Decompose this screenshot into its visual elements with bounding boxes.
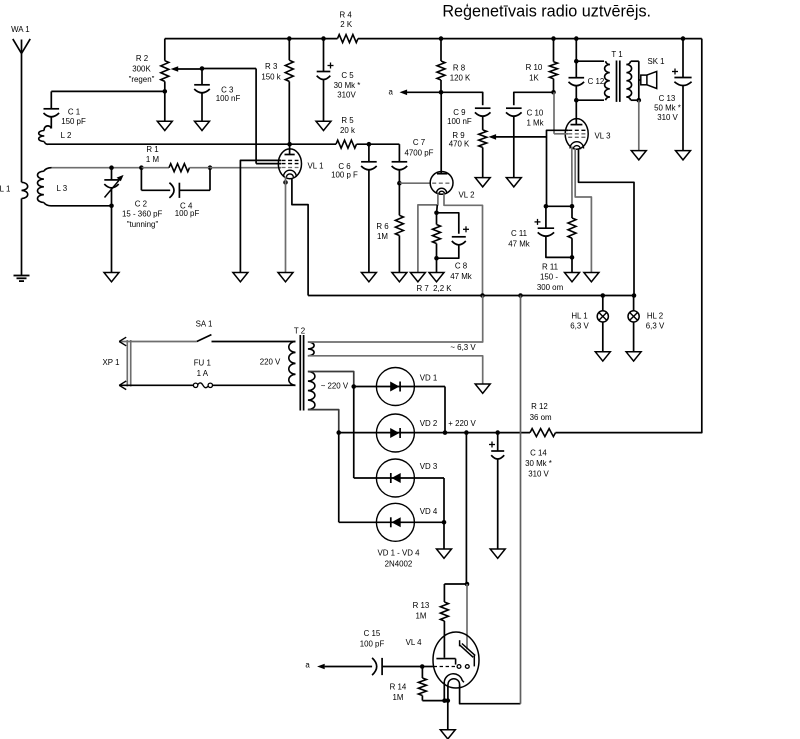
node R11 rail: [544, 204, 549, 209]
svg-text:T 2: T 2: [294, 326, 305, 335]
wire grid to VL2: [399, 182, 430, 184]
node R11 bottom: [570, 255, 575, 260]
switch SA1: [196, 320, 213, 342]
wire VL2 cathode left to ground: [418, 194, 438, 273]
node tuning nodes: [109, 165, 114, 170]
wire VL4 heater loop: [460, 685, 521, 704]
svg-text:VL 4: VL 4: [406, 638, 423, 647]
svg-text:36 om: 36 om: [530, 413, 552, 422]
wire C12 branch from bus: [575, 39, 577, 62]
ground VL3 heater: [584, 273, 599, 282]
svg-text:Reģenetīvais radio uztvērējs.: Reģenetīvais radio uztvērējs.: [442, 2, 651, 20]
wire heater riser: [520, 296, 522, 704]
node common bus junctions: [480, 293, 485, 298]
node VD4 right: [442, 520, 447, 525]
node VL2 grid junction: [397, 181, 402, 186]
resistor R11: [537, 206, 576, 292]
svg-text:310 V: 310 V: [657, 113, 678, 122]
tube VL3: [565, 100, 611, 149]
node R10 bottom: [551, 90, 556, 95]
svg-text:100 nF: 100 nF: [447, 117, 472, 126]
earth ground under antenna: [14, 276, 30, 282]
wire antenna down: [21, 54, 23, 183]
wire VL2 cathode right to common bus: [444, 194, 483, 296]
capacitor C15 and node a: [305, 629, 422, 675]
svg-text:VD 4: VD 4: [420, 507, 438, 516]
capacitor C12: [569, 61, 605, 100]
svg-text:WA 1: WA 1: [11, 25, 30, 34]
ground under HL1: [595, 352, 610, 361]
svg-text:R 12: R 12: [531, 402, 548, 411]
svg-text:+ 220 V: + 220 V: [448, 419, 476, 428]
node R7 top: [434, 211, 439, 216]
wire C1 to L2: [50, 117, 52, 129]
capacitor C5: [317, 39, 361, 122]
svg-text:R 10: R 10: [526, 63, 543, 72]
wire plate rail: [48, 143, 336, 145]
wire VL3 heater to R11: [571, 147, 573, 207]
capacitor C10: [506, 108, 544, 177]
capacitor C6: [331, 144, 377, 272]
wire VL4 target anode riser: [466, 584, 468, 650]
ground under C3: [195, 121, 210, 130]
diode VD1: [354, 368, 445, 406]
ground under C2: [104, 273, 119, 282]
svg-text:100 p F: 100 p F: [331, 170, 358, 179]
capacitor C11: [508, 206, 572, 257]
resistor R6: [376, 183, 403, 272]
svg-text:1 M: 1 M: [146, 155, 159, 164]
svg-text:150 pF: 150 pF: [61, 117, 86, 126]
wire C2 to ground: [111, 206, 113, 273]
ground VL2 cathode: [410, 273, 425, 282]
resistor R4: [338, 10, 359, 42]
svg-text:100 pF: 100 pF: [360, 639, 385, 648]
svg-text:R 6: R 6: [376, 222, 389, 231]
lamp HL1: [570, 296, 608, 352]
wire 6.3V bottom to ground: [308, 356, 483, 384]
wire FU1 to T2: [213, 384, 296, 386]
svg-text:C 12: C 12: [588, 77, 605, 86]
potentiometer R2: [129, 54, 202, 84]
node R7 bottom: [434, 256, 439, 261]
svg-text:100 pF: 100 pF: [175, 209, 200, 218]
svg-text:L 1: L 1: [0, 185, 10, 194]
wire XP1 bottom to FU1: [119, 384, 193, 386]
svg-text:1 A: 1 A: [197, 369, 209, 378]
ground under C10: [506, 178, 521, 187]
svg-text:C 14: C 14: [530, 449, 547, 458]
wire 220V secondary top to VD1: [308, 372, 354, 387]
svg-text:R 7 2,2 K: R 7 2,2 K: [416, 284, 452, 293]
wire XP1 to SA1: [131, 341, 197, 343]
svg-text:120 K: 120 K: [450, 73, 471, 82]
tube VL2: [430, 172, 474, 200]
svg-text:300K: 300K: [132, 64, 151, 73]
svg-text:1M: 1M: [416, 612, 427, 621]
tube VL4: [406, 632, 479, 688]
wire top supply bus: [165, 38, 338, 40]
svg-text:R 13: R 13: [413, 601, 430, 610]
wire 220V secondary bottom: [308, 410, 339, 433]
wire VD1-VD3 link: [353, 387, 355, 479]
svg-text:a: a: [389, 88, 394, 97]
svg-text:15 - 360 pF: 15 - 360 pF: [122, 210, 163, 219]
ground under R11: [565, 273, 580, 282]
inductor L3: [37, 168, 67, 206]
node C3 top: [200, 66, 205, 71]
wire VL2 plate riser: [440, 92, 442, 173]
wire VL3 screen row: [554, 133, 568, 135]
svg-text:XP 1: XP 1: [103, 358, 120, 367]
wire R11 rail: [546, 205, 572, 207]
resistor R8: [437, 39, 471, 93]
resistor R13: [413, 584, 449, 658]
capacitor C7: [392, 138, 434, 183]
winding T2 secondary 220V: [308, 372, 315, 410]
wire R10 node to C10: [514, 92, 554, 105]
wire SA1 to T2: [212, 341, 296, 343]
winding T2 secondary 6.3V: [308, 342, 314, 356]
wire L1 to ground: [21, 199, 23, 276]
resistor R12: [530, 402, 556, 437]
svg-text:6,3 V: 6,3 V: [570, 322, 589, 331]
diode VD3: [354, 459, 444, 497]
node +220V junctions: [336, 430, 341, 435]
ground under R6: [392, 273, 407, 282]
svg-text:100 nF: 100 nF: [216, 94, 241, 103]
svg-text:T 1: T 1: [611, 50, 622, 59]
wire common bus: [308, 295, 634, 297]
ground under C6: [361, 273, 376, 282]
ground under C14: [490, 549, 505, 558]
wire speaker to ground: [638, 100, 640, 150]
node VL4 cathode: [442, 698, 447, 703]
diode VD4: [339, 433, 444, 542]
node a (output tap): [389, 88, 441, 97]
variable capacitor C2: [104, 168, 162, 230]
wire B+ right border: [556, 39, 702, 433]
svg-text:150 k: 150 k: [261, 72, 280, 81]
ground VD rectifier: [437, 549, 452, 558]
capacitor C13: [654, 39, 691, 151]
svg-text:HL 2: HL 2: [647, 312, 663, 321]
wire VL1 g3 to ground: [240, 160, 281, 272]
svg-text:50 Mk *: 50 Mk *: [654, 104, 681, 113]
svg-text:SK 1: SK 1: [647, 57, 664, 66]
svg-text:"regen": "regen": [129, 75, 155, 84]
svg-text:300 om: 300 om: [537, 283, 564, 292]
wire +220V rail: [339, 432, 530, 434]
svg-text:R 11: R 11: [542, 262, 558, 271]
svg-text:2N4002: 2N4002: [385, 559, 413, 568]
tube VL1: [278, 144, 323, 179]
svg-text:C 7: C 7: [413, 138, 425, 147]
svg-text:a: a: [305, 661, 310, 670]
wire VD3 VD4 to ground: [443, 478, 445, 549]
wire VL1 cathode to ground: [285, 177, 287, 273]
svg-text:VD 3: VD 3: [420, 462, 438, 471]
wire VL3 heater to ground: [575, 149, 591, 273]
resistor R14: [390, 667, 448, 702]
transformer T2: [289, 326, 305, 410]
wire VL1 cathode to common bus: [292, 179, 308, 296]
wire VL1 screen row: [256, 163, 281, 165]
plug XP1: [103, 337, 131, 386]
svg-text:C 1: C 1: [68, 107, 80, 116]
svg-text:1 Mk: 1 Mk: [526, 118, 543, 127]
ground under R9: [475, 178, 490, 187]
ground under VL4: [440, 730, 455, 739]
potentiometer R9: [449, 116, 547, 178]
wire 6.3V top to bus: [308, 296, 483, 343]
ground VL1 cathode: [278, 273, 293, 282]
capacitor C9: [447, 108, 490, 126]
wire L3 top rail: [52, 167, 142, 169]
svg-text:6,3 V: 6,3 V: [646, 322, 665, 331]
svg-text:R 8: R 8: [453, 63, 466, 72]
svg-text:HL 1: HL 1: [571, 312, 587, 321]
node plate rail junctions: [287, 142, 292, 147]
node R2 bottom junction: [163, 89, 168, 94]
wire R10 to VL3 screen: [553, 92, 555, 134]
ground 6.3V: [475, 384, 490, 393]
svg-text:C 11: C 11: [511, 229, 527, 238]
node VL4 grid: [420, 664, 425, 669]
resistor R7: [416, 213, 452, 293]
wire VD1 to +220 rail: [444, 387, 446, 433]
resistor R3: [261, 39, 293, 145]
svg-text:2 K: 2 K: [340, 20, 353, 29]
svg-text:1M: 1M: [377, 232, 388, 241]
svg-text:"tunning": "tunning": [127, 220, 159, 229]
node T1 bottom: [574, 98, 579, 103]
svg-text:VL 1: VL 1: [308, 161, 324, 170]
wire grid to VL4: [422, 666, 433, 668]
resistor R5: [336, 116, 357, 148]
svg-text:VD 1: VD 1: [420, 374, 438, 383]
speaker SK1: [641, 57, 665, 89]
resistor R10: [526, 39, 558, 93]
svg-text:C 5: C 5: [341, 71, 354, 80]
transformer T1: [576, 50, 639, 102]
svg-text:470 K: 470 K: [449, 139, 470, 148]
svg-text:30 Mk *: 30 Mk *: [525, 459, 552, 468]
svg-text:30 Mk *: 30 Mk *: [334, 81, 361, 90]
svg-text:C 10: C 10: [527, 108, 544, 117]
wire R13 riser: [465, 433, 467, 584]
svg-text:4700 pF: 4700 pF: [405, 148, 434, 157]
svg-text:FU 1: FU 1: [194, 358, 211, 367]
svg-text:C 8: C 8: [455, 262, 468, 271]
node speaker junction: [637, 98, 642, 103]
svg-text:~ 6,3 V: ~ 6,3 V: [450, 343, 476, 352]
wire VL4 cathode legs: [443, 683, 445, 701]
node VL1 cathode: [283, 180, 288, 185]
ground VL1 g3: [233, 273, 248, 282]
wire bus to R2: [164, 39, 166, 61]
node top bus junctions: [287, 36, 292, 41]
svg-text:310 V: 310 V: [528, 469, 549, 478]
wire R2 junction to C1: [51, 90, 165, 92]
lamp HL2: [628, 296, 665, 352]
node R13 top: [465, 582, 470, 587]
wire L3 bottom rail: [52, 205, 112, 207]
node VD1 left: [351, 384, 356, 389]
svg-text:1K: 1K: [529, 73, 539, 82]
wire VL2 cathode to R7: [436, 205, 439, 213]
svg-text:VL 3: VL 3: [595, 132, 612, 141]
svg-text:47 Mk: 47 Mk: [450, 272, 472, 281]
wire grid rail to VL1: [210, 167, 281, 169]
wire VL3 cathode to bus: [579, 150, 635, 296]
wire R8 node to C9: [441, 92, 483, 105]
node R8 bottom: [439, 90, 444, 95]
svg-text:R 14: R 14: [390, 682, 407, 691]
capacitor C3: [194, 69, 240, 122]
ground under R2: [157, 121, 172, 130]
ground under R7: [429, 273, 444, 282]
svg-text:L 3: L 3: [56, 184, 67, 193]
svg-text:C 15: C 15: [364, 629, 381, 638]
svg-text:C 2: C 2: [135, 199, 147, 208]
inductor L1: [0, 182, 28, 198]
svg-text:220 V: 220 V: [260, 357, 281, 366]
svg-text:310V: 310V: [337, 91, 356, 100]
capacitor C4: [141, 168, 210, 219]
svg-text:R 4: R 4: [339, 10, 352, 19]
svg-text:VL 2: VL 2: [459, 191, 475, 200]
wire T1 secondary to speaker: [638, 61, 640, 100]
svg-text:VD 2: VD 2: [420, 419, 438, 428]
svg-text:20 k: 20 k: [340, 126, 355, 135]
capacitor C1: [44, 107, 86, 125]
svg-text:47 Mk: 47 Mk: [508, 239, 530, 248]
svg-text:150 -: 150 -: [540, 272, 558, 281]
wire to C1: [50, 91, 52, 108]
wire R2 wiper to C3 to VL1 screen: [202, 68, 256, 70]
svg-text:SA 1: SA 1: [196, 320, 213, 329]
svg-text:R 3: R 3: [265, 62, 278, 71]
ground under C13: [676, 151, 691, 160]
wire VL3 g1 circuit: [547, 130, 569, 206]
wire R13 top link: [444, 583, 467, 585]
svg-text:VD 1 - VD 4: VD 1 - VD 4: [377, 548, 420, 557]
capacitor C8: [437, 213, 472, 281]
svg-text:1M: 1M: [393, 693, 404, 702]
wire top bus right part: [358, 38, 702, 40]
ground under speaker: [631, 151, 646, 160]
svg-text:R 2: R 2: [136, 54, 148, 63]
fuse FU1: [193, 358, 212, 387]
wire R2 bottom: [164, 81, 166, 121]
resistor R1: [141, 145, 210, 172]
wire R5 to C7 corner: [357, 143, 400, 145]
antenna WA1: [11, 25, 30, 53]
capacitor C14: [489, 433, 552, 549]
svg-text:R 5: R 5: [341, 116, 354, 125]
ground under C5: [316, 121, 331, 130]
svg-text:C 13: C 13: [659, 94, 676, 103]
svg-text:L 2: L 2: [61, 131, 72, 140]
diode VD2: [376, 414, 437, 452]
svg-text:R 1: R 1: [146, 145, 158, 154]
inductor L2: [39, 126, 72, 144]
svg-text:~ 220 V: ~ 220 V: [321, 381, 349, 390]
node T1 top: [574, 59, 579, 64]
ground under HL2: [626, 352, 641, 361]
